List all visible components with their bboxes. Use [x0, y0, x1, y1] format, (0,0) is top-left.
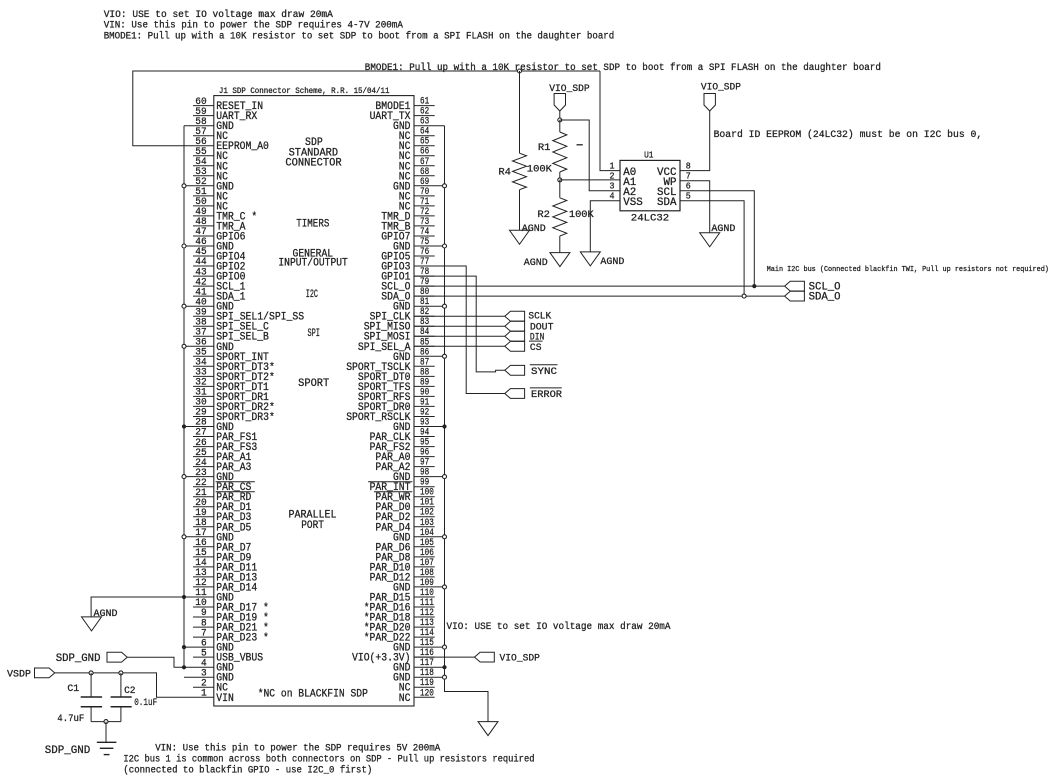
resistor R1 — [553, 120, 567, 180]
svg-text:R2: R2 — [537, 209, 550, 221]
J1 pin 98 GND — [393, 468, 445, 485]
wire AGND branch from GND bus (pin 11 row) — [91, 597, 184, 617]
svg-text:VIN: Use this pin to power the: VIN: Use this pin to power the SDP requi… — [155, 742, 440, 754]
wire SPI_CLK to SCLK flag — [414, 315, 505, 317]
svg-text:J1 SDP Connector Scheme, R.R.: J1 SDP Connector Scheme, R.R. 15/04/11 — [219, 87, 390, 96]
wire GPIO1 to SYNC flag — [414, 276, 505, 372]
J1 pin 117 GND — [393, 658, 445, 675]
J1 pin 91 SPORT_DR0 — [358, 397, 435, 414]
J1 pin 84 SPI_MOSI — [364, 327, 435, 344]
J1 pin 39 SPI_SEL1/SPI_SS — [193, 306, 304, 323]
junction dot SCL tie — [752, 284, 756, 288]
J1 pin 48 TMR_A — [193, 216, 246, 233]
wire BMODE1 vertical to U1 pin 1 (A0) — [600, 71, 620, 171]
IC U1 body (24LC32 EEPROM) — [620, 160, 680, 210]
J1 pin 44 GPIO2 — [193, 256, 246, 273]
connector J1 body outline — [214, 96, 414, 706]
J1 section label PARALLEL PORT — [289, 509, 337, 531]
J1 pin 96 PAR_A0 — [375, 448, 434, 465]
flag SDP_GND (to GND bus) — [107, 652, 127, 662]
junction dots on right GND bus — [442, 184, 446, 679]
flag DIN — [505, 331, 525, 341]
wire SPI_MISO to DOUT flag — [414, 325, 505, 327]
J1 pin 115 GND — [393, 638, 445, 655]
svg-text:100K: 100K — [527, 164, 553, 176]
svg-text:Board ID EEPROM (24LC32) must: Board ID EEPROM (24LC32) must be on I2C … — [714, 129, 983, 141]
svg-text:VIN: VIN — [216, 693, 234, 705]
J1 pin 60 RESET_IN — [193, 96, 263, 113]
J1 pin 75 GND — [393, 237, 445, 254]
junction dot R4 top on BMODE1 wire — [518, 69, 522, 73]
svg-text:SYNC: SYNC — [531, 366, 557, 378]
svg-text:U1: U1 — [644, 151, 653, 161]
J1 pin 101 PAR_D0 — [375, 498, 434, 515]
J1 pin 53 NC — [193, 166, 228, 183]
J1 pin 6 GND — [184, 637, 234, 654]
svg-text:R1: R1 — [538, 142, 551, 154]
svg-text:NC: NC — [399, 693, 411, 705]
svg-text:VIO: USE to set IO voltage max: VIO: USE to set IO voltage max draw 20mA — [447, 621, 671, 633]
wire SPI_MOSI to DIN flag — [414, 335, 505, 337]
J1 pin 20 PAR_D1 — [193, 497, 252, 514]
svg-text:TIMERS: TIMERS — [296, 219, 329, 231]
svg-text:VIN: Use this pin to power the: VIN: Use this pin to power the SDP requi… — [104, 19, 403, 31]
J1 pin 41 SDA_1 — [193, 286, 246, 303]
wire BMODE1 top run (from EEPROM_A0 up and across to R4/A0) — [133, 71, 600, 146]
wire U1 pin 5 (SDA) to SDA_O bus — [680, 201, 744, 296]
flag SCLK — [505, 311, 525, 321]
J1 pin 114 *PAR_D22 — [364, 628, 435, 645]
J1 pin 109 GND — [393, 578, 445, 595]
svg-text:SPI: SPI — [307, 328, 320, 340]
J1 pin 93 GND — [393, 418, 445, 435]
J1 pin 13 PAR_D13 — [193, 567, 257, 584]
svg-text:R4: R4 — [498, 167, 511, 179]
svg-text:Main I2C bus (Connected blackf: Main I2C bus (Connected blackfin TWI, Pu… — [767, 266, 1049, 274]
wire GPIO3 to ERROR flag — [414, 266, 505, 394]
J1 pin 78 GPIO1 — [381, 267, 434, 284]
resistor R4 — [513, 71, 527, 230]
svg-text:SDP_GND: SDP_GND — [56, 653, 101, 665]
J1 pin 72 TMR_D — [381, 207, 434, 224]
J1 pin 63 GND — [393, 117, 445, 134]
U1 pin numbers — [610, 160, 692, 201]
wire node VIO to U1 pin 3 (A2) — [560, 120, 620, 191]
J1 pin 31 SPORT_DR1 — [193, 387, 269, 404]
flag SCL_O — [785, 281, 805, 291]
svg-text:CONNECTOR: CONNECTOR — [285, 158, 342, 170]
wire right GND bus (to bottom-right ground) — [445, 126, 489, 722]
J1 pin 69 GND — [393, 177, 445, 194]
junction dot SDP_GND tie — [182, 665, 186, 669]
svg-text:ERROR: ERROR — [531, 389, 563, 401]
J1 pin 59 UART_RX — [193, 106, 258, 123]
J1 pin 97 PAR_A2 — [375, 458, 434, 475]
J1 pin 76 GPIO5 — [381, 247, 434, 264]
J1 pin 1 VIN — [193, 688, 234, 705]
svg-text:BMODE1: Pull up with a 10K res: BMODE1: Pull up with a 10K resistor to s… — [104, 31, 615, 43]
J1 pin 26 PAR_FS3 — [193, 437, 257, 454]
J1 pin 100 PAR_WR — [374, 488, 435, 505]
J1 pin 106 PAR_D8 — [375, 548, 434, 565]
J1 pin 95 PAR_FS2 — [370, 438, 435, 455]
J1 pin 25 PAR_A1 — [193, 447, 252, 464]
junction dot C2 top — [119, 671, 123, 675]
J1 pin 92 SPORT_RSCLK — [346, 408, 435, 425]
J1 pin 65 NC — [399, 137, 435, 154]
svg-text:120: 120 — [420, 688, 434, 699]
J1 pin 61 BMODE1 — [375, 97, 434, 114]
J1 pin 32 SPORT_DT1 — [193, 377, 269, 394]
J1 pin 105 PAR_D6 — [375, 538, 434, 555]
J1 pin 81 GND — [393, 297, 445, 314]
J1 pin 56 EEPROM_A0 — [193, 136, 269, 153]
J1 pin 119 NC — [399, 678, 435, 695]
J1 pin 58 GND — [184, 116, 234, 133]
J1 pin 99 PAR_INT — [368, 478, 435, 495]
J1 pin 10 PAR_D17 * — [193, 597, 269, 614]
J1 pin 66 NC — [399, 147, 435, 164]
svg-text:VSS: VSS — [623, 197, 643, 209]
J1 pin 113 *PAR_D20 — [364, 618, 435, 635]
ground AGND (R4) — [510, 230, 530, 244]
svg-text:SDP_GND: SDP_GND — [45, 745, 91, 757]
J1 pin 102 PAR_D2 — [375, 508, 434, 525]
J1 pin 67 NC — [399, 157, 435, 174]
svg-text:1: 1 — [201, 688, 207, 700]
J1 pin 5 USB_VBUS — [193, 647, 263, 664]
J1 pin 118 GND — [393, 668, 445, 685]
J1 pin 19 PAR_D3 — [193, 507, 251, 524]
svg-text:C2: C2 — [124, 685, 135, 697]
wire U1 pin 4 (VSS) to AGND — [590, 201, 620, 252]
flag VIO_SDP (mid right) — [475, 652, 495, 662]
wire SCL_O bus — [414, 285, 785, 287]
svg-text:VIO_SDP: VIO_SDP — [549, 83, 590, 95]
wire VSDP to VIN pin 1 — [55, 673, 193, 697]
svg-text:4.7uF: 4.7uF — [57, 713, 84, 725]
J1 pin 87 SPORT_TSCLK — [346, 357, 435, 374]
svg-text:AGND: AGND — [711, 223, 735, 235]
J1 pin 70 NC — [399, 187, 435, 204]
ground AGND (left) — [82, 617, 102, 631]
label R1 value placeholder dash — [577, 144, 583, 146]
wire SDP_GND flag to GND bus — [127, 657, 184, 667]
J1 pin 107 PAR_D10 — [370, 558, 435, 575]
J1 pin 103 PAR_D4 — [375, 518, 434, 535]
J1 pin 94 PAR_CLK — [370, 428, 435, 445]
svg-text:VIO: USE to set IO voltage max: VIO: USE to set IO voltage max draw 20mA — [104, 9, 333, 21]
svg-text:BMODE1: Pull up with a 10K res: BMODE1: Pull up with a 10K resistor to s… — [365, 62, 881, 74]
J1 pin 88 SPORT_DT0 — [358, 367, 435, 384]
J1 pin 17 GND — [184, 527, 234, 544]
J1 pin 90 SPORT_RFS — [358, 387, 435, 404]
J1 pin 47 GPIO6 — [193, 226, 246, 243]
wire U1 pin 8 (VCC) to VIO_SDP flag — [680, 111, 710, 171]
capacitor C2 — [111, 673, 132, 722]
J1 pin 43 GPIO0 — [193, 266, 246, 283]
J1 pin 82 SPI_CLK — [370, 307, 435, 324]
J1 pin 86 GND — [393, 347, 445, 364]
resistor R2 — [553, 180, 567, 253]
svg-text:AGND: AGND — [522, 223, 546, 235]
svg-text:AGND: AGND — [94, 608, 118, 620]
J1 pin 85 SPI_SEL_A — [358, 337, 435, 354]
J1 pin 36 GND — [184, 337, 234, 354]
svg-text:INPUT/OUTPUT: INPUT/OUTPUT — [278, 257, 348, 269]
label CS (with overbar) — [529, 341, 543, 354]
junction dot R1 top / node VIO — [558, 118, 562, 122]
J1 pin 37 SPI_SEL_B — [193, 326, 269, 343]
svg-text:4: 4 — [610, 191, 615, 202]
J1 pin 104 GND — [393, 528, 445, 545]
svg-text:C1: C1 — [67, 683, 79, 695]
J1 pin 11 GND — [184, 587, 234, 604]
J1 pin 111 *PAR_D16 — [364, 598, 435, 615]
J1 pin 68 NC — [399, 167, 435, 184]
flag SYNC — [505, 365, 525, 375]
J1 pin 108 PAR_D12 — [370, 568, 435, 585]
junction dot R1/R2 node A1 — [558, 178, 562, 182]
svg-text:5: 5 — [686, 191, 691, 202]
U1 pin names — [623, 167, 677, 209]
J1 pin 45 GPIO4 — [193, 246, 246, 263]
wire VIO_SDP flag to R1 top — [559, 111, 561, 120]
wire capacitor bottom rail — [91, 721, 121, 723]
J1 pin 29 SPORT_DR3* — [193, 407, 275, 424]
J1 pin 24 PAR_A3 — [193, 457, 251, 474]
wire SDA_O bus — [414, 295, 785, 297]
J1 section label SDP STANDARD CONNECTOR — [285, 137, 342, 170]
junction dots on left GND bus — [182, 184, 186, 649]
J1 pin 110 PAR_D15 — [370, 588, 435, 605]
J1 pin 30 SPORT_DR2* — [193, 397, 275, 414]
J1 pin 7 PAR_D23 * — [193, 627, 269, 644]
J1 pin 38 SPI_SEL_C — [193, 316, 269, 333]
flag ERROR — [505, 389, 525, 399]
svg-text:VIO_SDP: VIO_SDP — [500, 653, 540, 665]
J1 pin 2 NC — [193, 677, 228, 694]
J1 pin 3 GND — [184, 667, 234, 684]
junction dot SDA tie — [742, 294, 746, 298]
svg-text:SPORT: SPORT — [298, 378, 329, 390]
label ERROR (with overbar) — [530, 388, 563, 401]
J1 pin 55 NC — [193, 146, 228, 163]
J1 pin 40 GND — [184, 296, 234, 313]
J1 pin 50 NC — [193, 196, 228, 213]
J1 pin 52 GND — [184, 176, 234, 193]
J1 pin 18 PAR_D5 — [193, 517, 251, 534]
J1 pin 8 PAR_D21 * — [193, 617, 269, 634]
J1 pin 16 PAR_D7 — [193, 537, 251, 554]
ground AGND (VSS) — [580, 252, 600, 266]
wire node A1 to U1 pin 2 — [560, 179, 620, 181]
J1 pin 22 PAR_CS — [193, 477, 255, 494]
flag VIO_SDP (above U1) — [704, 94, 715, 112]
svg-text:SDA: SDA — [657, 197, 677, 209]
J1 pin 57 NC — [193, 126, 228, 143]
flag CS — [505, 341, 525, 351]
capacitor C1 — [81, 673, 102, 722]
svg-text:PORT: PORT — [301, 520, 324, 532]
J1 pin 42 SCL_1 — [193, 276, 246, 293]
svg-text:24LC32: 24LC32 — [631, 212, 669, 224]
flag SDA_O — [785, 291, 805, 301]
J1 pin 34 SPORT_DT3* — [193, 357, 275, 374]
J1 pin 4 GND — [184, 657, 234, 674]
svg-text:*NC on BLACKFIN SDP: *NC on BLACKFIN SDP — [258, 688, 369, 700]
svg-text:AGND: AGND — [600, 256, 624, 268]
svg-text:AGND: AGND — [524, 257, 548, 269]
ground SDP_GND (earth bars) — [97, 741, 117, 743]
junction dot capacitor rail — [104, 720, 108, 724]
svg-text:CS: CS — [530, 342, 542, 354]
J1 pin 71 NC — [399, 197, 435, 214]
flag DOUT — [505, 321, 525, 331]
svg-text:VSDP: VSDP — [7, 669, 31, 681]
J1 section label GENERAL INPUT/OUTPUT — [278, 248, 348, 269]
J1 pin 21 PAR_RD — [193, 487, 255, 504]
ground AGND (WP) — [700, 233, 720, 247]
svg-text:(connected to blackfin GPIO -: (connected to blackfin GPIO - use I2C_0 … — [123, 764, 372, 776]
svg-text:VIO_SDP: VIO_SDP — [701, 81, 741, 93]
J1 pin 112 *PAR_D18 — [364, 608, 435, 625]
svg-text:SDA_O: SDA_O — [809, 292, 841, 304]
wire U1 pin 7 (WP) to AGND — [680, 181, 710, 233]
ground AGND (R2) — [550, 253, 570, 267]
J1 pin 12 PAR_D14 — [193, 577, 258, 594]
wire SPI_SEL_A to CS flag — [414, 345, 505, 347]
J1 pin 9 PAR_D19 * — [193, 607, 269, 624]
wire VIO(+3.3V) to VIO_SDP flag — [414, 656, 475, 658]
J1 pin 35 SPORT_INT — [193, 347, 269, 364]
wire stem to SDP_GND ground — [105, 722, 107, 743]
J1 pin 14 PAR_D11 — [193, 557, 258, 574]
wire left GND bus — [183, 126, 185, 668]
J1 pin 116 VIO(+3.3V) — [352, 648, 435, 665]
svg-text:I2C bus 1 is common across bot: I2C bus 1 is common across both connecto… — [123, 753, 534, 765]
J1 pin 77 GPIO3 — [381, 257, 434, 274]
J1 pin 49 TMR_C * — [193, 206, 257, 223]
J1 pin 83 SPI_MISO — [364, 317, 435, 334]
ground triangle (bottom right) — [478, 722, 498, 736]
label SYNC (with overbar) — [530, 365, 558, 378]
J1 pin 46 GND — [184, 236, 234, 253]
J1 pin 51 NC — [193, 186, 228, 203]
svg-text:0.1uF: 0.1uF — [134, 697, 157, 709]
J1 pin 74 GPIO7 — [381, 227, 434, 244]
junction dot C1 top — [89, 671, 93, 675]
J1 pin 89 SPORT_TFS — [358, 377, 435, 394]
J1 pin 80 SDA_O — [381, 287, 434, 304]
J1 pin 79 SCL_O — [381, 277, 434, 294]
J1 pin 33 SPORT_DT2* — [193, 367, 275, 384]
J1 pin 54 NC — [193, 156, 228, 173]
J1 pin 15 PAR_D9 — [193, 547, 251, 564]
J1 pin 120 NC — [399, 688, 435, 705]
flag VSDP input — [35, 668, 55, 678]
J1 pin 73 TMR_B — [381, 217, 434, 234]
J1 pin 27 PAR_FS1 — [193, 427, 258, 444]
J1 pin 64 NC — [399, 127, 435, 144]
J1 pin 62 UART_TX — [370, 107, 435, 124]
svg-text:I2C: I2C — [306, 289, 318, 301]
J1 pin 23 GND — [184, 467, 234, 484]
wire U1 pin 6 (SCL) to SCL_O bus — [680, 191, 754, 286]
flag VIO_SDP (above R1) — [554, 94, 565, 112]
J1 pin 28 GND — [184, 417, 234, 434]
